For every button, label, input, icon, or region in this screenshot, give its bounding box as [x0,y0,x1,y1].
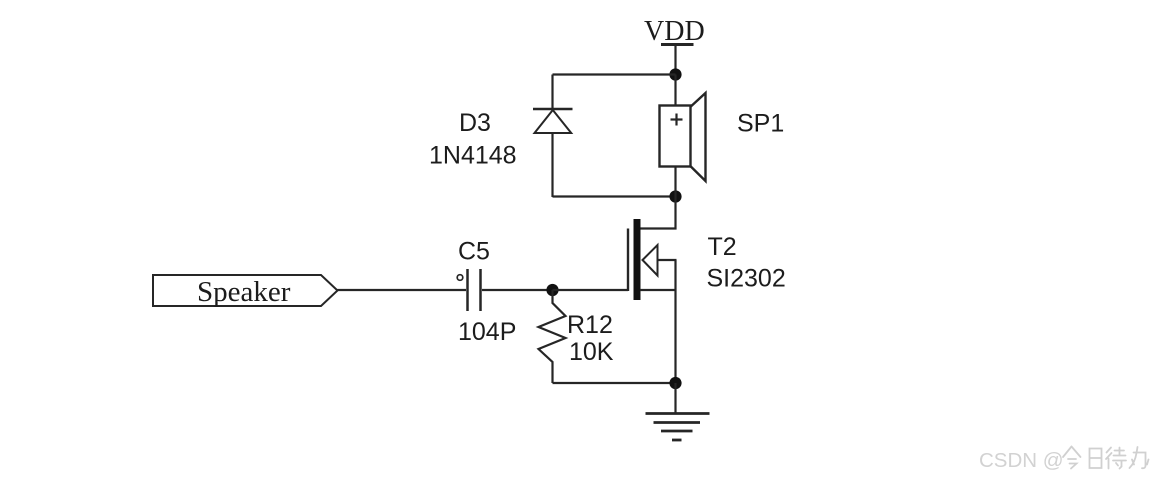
wire C5 to gate node [482,289,553,291]
wire down to diode cathode [551,75,553,110]
wire T2 source/body down to bottom node [674,260,676,383]
label C5 104P [458,238,516,347]
svg-text:R12: R12 [567,311,613,339]
net label Speaker [153,275,338,308]
svg-text:Speaker: Speaker [197,276,291,308]
wire diode anode down [551,133,553,197]
svg-text:SP1: SP1 [737,110,784,138]
svg-text:104P: 104P [458,318,516,346]
capacitor C5 [457,269,480,311]
wire node to T2 gate [553,289,629,291]
svg-text:CSDN @: CSDN @ [979,449,1064,472]
transistor T2 [628,219,677,300]
svg-text:T2: T2 [708,233,737,261]
wire node to T2 drain [674,197,676,230]
svg-text:VDD: VDD [644,16,705,47]
speaker SP1 [660,93,706,181]
wire R12 bottom to ground node [553,382,676,384]
ground [646,414,710,441]
wire speaker bottom to node [674,167,676,197]
wire top node to speaker [674,75,676,107]
label D3 1N4148 [429,109,517,170]
watermark CSDN [979,447,1150,474]
wire top node to diode branch [553,73,676,75]
svg-text:10K: 10K [569,338,614,366]
node junction D3 / SP1 / T2 drain [669,190,681,202]
wire VDD bar to top node [674,45,676,76]
diode D3 [533,109,573,133]
node junction VDD / D3 / SP1 [669,68,681,80]
svg-text:D3: D3 [459,109,491,137]
label R12 10K [567,311,614,366]
svg-text:C5: C5 [458,238,490,266]
label T2 SI2302 [707,233,786,293]
power symbol VDD [644,16,705,47]
wire diode bottom to node [553,195,676,197]
wire net label to C5 [338,289,467,291]
resistor R12 [539,290,566,383]
node junction C5 / R12 / gate [546,284,558,296]
svg-text:1N4148: 1N4148 [429,142,517,170]
wire node to ground [674,383,676,414]
node junction R12 / T2 source / ground [669,377,681,389]
svg-text:SI2302: SI2302 [707,265,786,293]
